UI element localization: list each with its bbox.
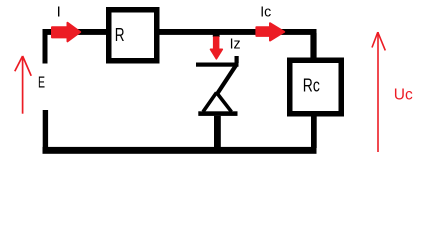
wire zener bottom stub xyxy=(214,116,221,148)
wire left vertical lower xyxy=(43,110,48,154)
zener anode base bar xyxy=(198,111,237,116)
zener triangle sides xyxy=(203,93,232,112)
svg-text:Uc: Uc xyxy=(394,86,413,103)
source arrow E xyxy=(15,56,31,114)
zener cathode bar xyxy=(196,63,239,67)
resistor R xyxy=(109,10,157,61)
current arrow Ic xyxy=(256,23,284,40)
zener diode xyxy=(196,34,239,147)
current arrow Iz xyxy=(211,37,223,59)
wire zener top stub xyxy=(213,34,220,37)
voltage arrow Uc xyxy=(372,32,385,152)
svg-text:Ic: Ic xyxy=(260,4,271,21)
svg-text:Rc: Rc xyxy=(303,76,320,96)
zener diagonal stroke xyxy=(217,65,237,95)
zener cathode right tick xyxy=(235,56,239,63)
resistor Rc xyxy=(290,60,342,114)
svg-text:Iz: Iz xyxy=(230,35,241,52)
svg-text:R: R xyxy=(115,25,125,45)
svg-text:E: E xyxy=(38,74,45,91)
svg-text:I: I xyxy=(57,4,61,21)
wire left vertical upper xyxy=(43,29,48,64)
wire Rc bottom stub xyxy=(311,115,317,148)
wire top horizontal xyxy=(43,29,317,35)
wire bottom horizontal xyxy=(43,147,317,154)
wire Rc top stub xyxy=(310,33,316,59)
current arrow I xyxy=(52,23,80,42)
